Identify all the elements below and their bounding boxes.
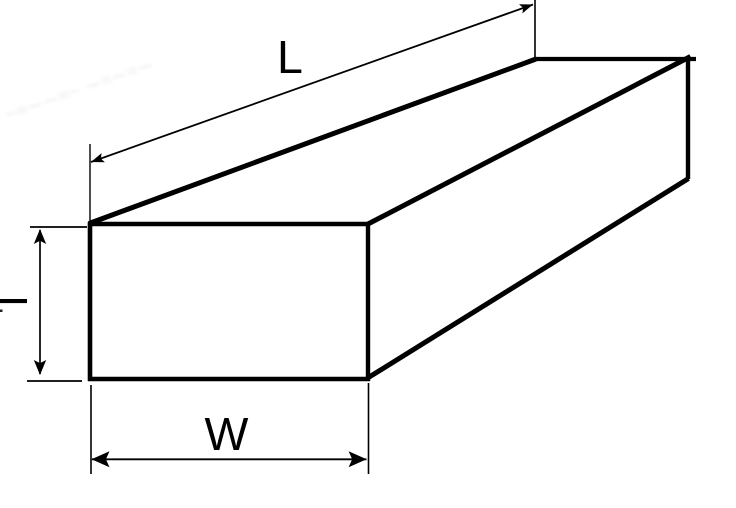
svg-text:W: W [205,408,249,460]
svg-text:L: L [277,31,303,83]
